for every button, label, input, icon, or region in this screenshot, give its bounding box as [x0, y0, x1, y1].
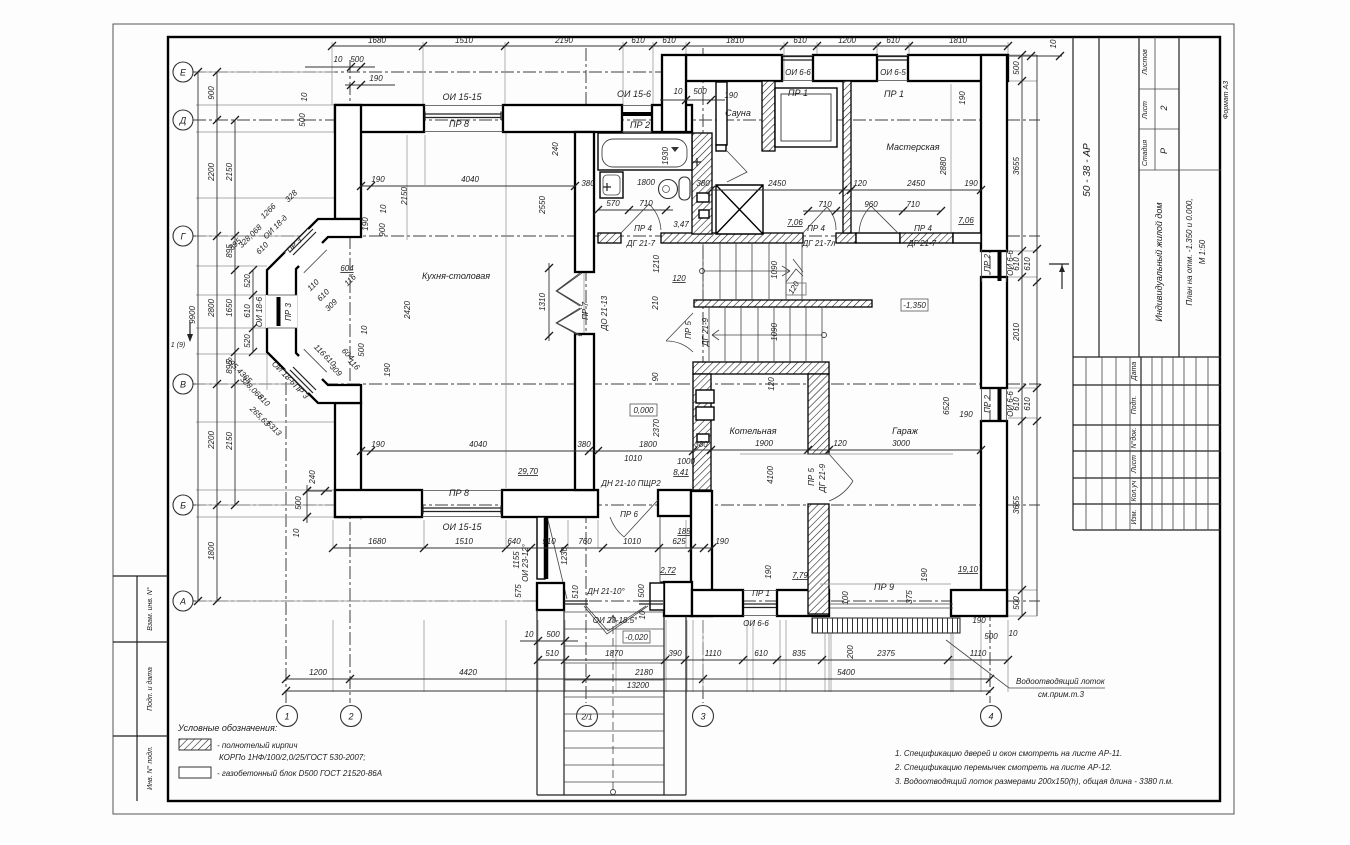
svg-text:50 - 38 - АР: 50 - 38 - АР [1082, 143, 1093, 197]
svg-text:7,79: 7,79 [792, 571, 808, 580]
svg-text:Дата: Дата [1131, 362, 1138, 382]
svg-text:Е: Е [180, 68, 187, 78]
svg-text:6520: 6520 [942, 397, 951, 415]
svg-text:ДГ 21-7: ДГ 21-7 [907, 239, 937, 248]
svg-text:2190: 2190 [554, 36, 573, 45]
svg-text:ОИ 6-6: ОИ 6-6 [1006, 391, 1015, 417]
wall axis А south (east wing) [692, 590, 743, 616]
legend block [179, 767, 211, 778]
bay window wall [267, 219, 361, 403]
door ОИ 23-12 leaf [544, 518, 549, 579]
svg-text:10: 10 [300, 92, 309, 101]
svg-text:500: 500 [1012, 61, 1021, 75]
dim chain left axes [216, 72, 218, 601]
svg-text:ОИ 23-12°: ОИ 23-12° [521, 543, 530, 582]
kitchen dim bottom [361, 450, 693, 452]
svg-text:ОИ 6-6: ОИ 6-6 [785, 68, 811, 77]
svg-text:3. Водоотводящий лоток размера: 3. Водоотводящий лоток размерами 200х150… [895, 777, 1173, 786]
svg-text:ДГ 21-7л: ДГ 21-7л [802, 239, 836, 248]
svg-text:Подп.: Подп. [1130, 396, 1138, 415]
entry door sill ДН 21-10 [564, 601, 663, 604]
svg-text:190: 190 [959, 410, 973, 419]
svg-text:610: 610 [793, 36, 807, 45]
door ПР 4 / ДГ 21-7 right [859, 206, 900, 235]
svg-text:120: 120 [833, 439, 847, 448]
dim chain left rooms [234, 120, 236, 505]
svg-text:-1,350: -1,350 [903, 301, 926, 310]
svg-text:190: 190 [715, 537, 729, 546]
svg-text:1930: 1930 [661, 147, 670, 165]
svg-text:2800: 2800 [207, 299, 216, 318]
svg-text:ПР 2: ПР 2 [983, 395, 992, 413]
svg-text:ДН 21-10 ПЩР2: ДН 21-10 ПЩР2 [600, 479, 661, 488]
svg-text:1810: 1810 [726, 36, 744, 45]
svg-text:Изм.: Изм. [1131, 509, 1138, 524]
svg-text:1510: 1510 [455, 36, 473, 45]
svg-text:ОИ 6-5: ОИ 6-5 [880, 68, 906, 77]
svg-text:2150: 2150 [225, 432, 234, 451]
dim chain left bay [252, 270, 254, 352]
svg-text:0,000: 0,000 [633, 406, 654, 415]
svg-text:10: 10 [334, 55, 343, 64]
svg-text:190: 190 [371, 440, 385, 449]
svg-text:570: 570 [606, 199, 620, 208]
svg-text:1 (9): 1 (9) [171, 342, 185, 349]
kitchen dim top [361, 185, 575, 187]
svg-text:ДН 21-10°: ДН 21-10° [586, 587, 625, 596]
svg-text:4: 4 [988, 712, 993, 722]
svg-text:610: 610 [1023, 397, 1032, 411]
bay window gap upper diagonal [285, 229, 328, 272]
svg-text:4040: 4040 [461, 175, 479, 184]
title block small rows [1073, 357, 1221, 530]
svg-text:190: 190 [920, 568, 929, 582]
left wall upper [335, 105, 361, 219]
svg-text:500: 500 [1012, 596, 1021, 610]
svg-text:2200: 2200 [207, 163, 216, 182]
window ОИ 6-6 [782, 56, 813, 81]
svg-text:ПР 1: ПР 1 [752, 589, 770, 598]
svg-text:- газобетонный блок D500 ГОСТ: - газобетонный блок D500 ГОСТ 21520-86А [217, 769, 382, 778]
svg-text:Инв. N° подл.: Инв. N° подл. [146, 746, 154, 790]
svg-text:1680: 1680 [368, 537, 386, 546]
svg-text:640: 640 [507, 537, 521, 546]
toilet [659, 180, 678, 199]
svg-text:Листов: Листов [1142, 49, 1149, 76]
left wall lower [335, 403, 361, 517]
bay window gap middle [266, 295, 297, 328]
extension lines top [332, 42, 1008, 105]
svg-text:ДГ 21-9: ДГ 21-9 [818, 463, 827, 493]
svg-text:Индивидуальный жилой дом: Индивидуальный жилой дом [1154, 202, 1164, 321]
svg-text:9900: 9900 [188, 306, 197, 324]
svg-text:ПР 5: ПР 5 [684, 321, 693, 339]
svg-text:4100: 4100 [766, 466, 775, 484]
door ПР 5 / ДГ 21-9 garage [829, 454, 853, 501]
furnace box with cross [716, 185, 763, 234]
hatched boiler room east wall [808, 374, 829, 454]
svg-text:240: 240 [551, 142, 560, 157]
dim chain top [332, 45, 1008, 47]
svg-text:ПР 3: ПР 3 [284, 303, 293, 321]
svg-text:710: 710 [906, 200, 920, 209]
corner wall piece [664, 582, 692, 616]
svg-text:3000: 3000 [892, 439, 910, 448]
svg-text:190: 190 [964, 179, 978, 188]
door ПР 5 / ДГ 21-9 corridor [666, 313, 693, 352]
svg-text:510: 510 [542, 537, 556, 546]
svg-text:500: 500 [357, 343, 366, 357]
svg-text:1310: 1310 [538, 293, 547, 311]
svg-text:3655: 3655 [1012, 496, 1021, 514]
hatched wall sauna/masterskaya [843, 81, 851, 233]
svg-text:М 1:50: М 1:50 [1198, 239, 1207, 264]
svg-text:8,41: 8,41 [673, 468, 689, 477]
svg-text:Мастерская: Мастерская [886, 142, 939, 152]
svg-text:900: 900 [207, 86, 216, 100]
hatched sauna east wall [762, 81, 775, 151]
svg-text:ПР 5: ПР 5 [807, 468, 816, 486]
svg-text:10: 10 [379, 204, 388, 213]
bath fixtures small marks [693, 158, 701, 166]
svg-text:29,70: 29,70 [517, 467, 539, 476]
window ОИ 6-6 / ПР 1 south [743, 591, 777, 616]
svg-text:1: 1 [284, 712, 289, 722]
door ПР 6 [610, 500, 658, 537]
svg-text:390: 390 [668, 649, 682, 658]
door ДГ 21-7 bath [621, 204, 661, 233]
svg-text:1800: 1800 [207, 542, 216, 560]
outer sheet border [113, 24, 1234, 814]
svg-text:ПР 7: ПР 7 [581, 302, 590, 320]
svg-text:ПР 2: ПР 2 [983, 254, 992, 272]
svg-text:Сауна: Сауна [725, 108, 751, 118]
svg-text:10: 10 [525, 630, 534, 639]
bay glazing middle ПР 3 / ОИ 18-6 [277, 297, 281, 326]
extension lines right [1008, 55, 1037, 616]
hatched boiler room west wall [693, 374, 711, 490]
svg-text:10: 10 [1049, 39, 1058, 48]
svg-text:2010: 2010 [1012, 323, 1021, 342]
svg-text:1200: 1200 [309, 668, 327, 677]
svg-text:ОИ 6-6: ОИ 6-6 [1006, 250, 1015, 276]
svg-text:ДО 21-13: ДО 21-13 [600, 295, 609, 331]
svg-text:2370: 2370 [652, 419, 661, 438]
sauna west wall stub [716, 82, 727, 145]
svg-text:см.прим.т.3: см.прим.т.3 [1038, 690, 1085, 699]
svg-text:Котельная: Котельная [729, 426, 776, 436]
svg-text:ОИ 23-18.5°: ОИ 23-18.5° [593, 616, 638, 625]
hatched stair landing wall [694, 300, 872, 307]
svg-text:380: 380 [581, 179, 595, 188]
dim chain bottom А [538, 659, 1008, 661]
dim chain left 9900 [197, 72, 199, 601]
svg-text:1650: 1650 [225, 299, 234, 317]
svg-text:380: 380 [696, 179, 710, 188]
svg-text:Гараж: Гараж [892, 426, 919, 436]
porch steps [564, 612, 664, 782]
washer boxes bathroom [697, 193, 709, 202]
svg-text:510: 510 [571, 585, 580, 599]
svg-text:ПР 4: ПР 4 [914, 224, 932, 233]
window ПР 2 / ОИ 6-6 right upper [982, 249, 1007, 282]
legend brick hatch [179, 739, 211, 750]
axis circles bottom [277, 706, 298, 727]
wall axis Д top (west wing) [335, 105, 424, 132]
svg-text:210: 210 [651, 296, 660, 311]
svg-text:500: 500 [350, 55, 364, 64]
axis lines vertical [285, 360, 287, 703]
drainage grate [812, 618, 960, 633]
svg-text:ОИ 15-15: ОИ 15-15 [443, 92, 483, 102]
svg-text:710: 710 [818, 200, 832, 209]
axis circles left [173, 62, 193, 82]
svg-text:1110: 1110 [705, 649, 722, 658]
svg-text:10: 10 [360, 325, 369, 334]
svg-text:90: 90 [651, 372, 660, 381]
svg-text:1230: 1230 [560, 547, 569, 565]
porch block right [650, 583, 664, 610]
svg-text:1090: 1090 [770, 261, 779, 279]
inner drawing frame [168, 37, 1220, 801]
door ПР 4 / ДГ 21-7л [803, 207, 836, 233]
svg-text:960: 960 [864, 200, 878, 209]
svg-text:ДГ 21-7: ДГ 21-7 [626, 239, 656, 248]
svg-text:ОИ 6-6: ОИ 6-6 [743, 619, 769, 628]
svg-text:900: 900 [378, 223, 387, 237]
svg-text:N°док.: N°док. [1130, 428, 1138, 449]
svg-text:1010: 1010 [623, 537, 641, 546]
svg-text:1. Спецификацию дверей и окон: 1. Спецификацию дверей и окон смотреть н… [895, 749, 1122, 758]
svg-text:1800: 1800 [637, 178, 655, 187]
svg-text:Р: Р [1159, 148, 1169, 154]
svg-text:А: А [179, 597, 186, 607]
dim chain bottom total [286, 690, 990, 692]
svg-text:625: 625 [672, 537, 686, 546]
svg-text:185: 185 [677, 527, 691, 536]
wall right (east) [981, 55, 1007, 251]
window ПР 8 / ОИ 15-15 south [422, 491, 502, 517]
extension lines bottom [333, 520, 1008, 692]
svg-text:-0,020: -0,020 [625, 633, 648, 642]
svg-text:190: 190 [361, 217, 370, 231]
svg-text:ДГ 21-9: ДГ 21-9 [701, 317, 710, 347]
svg-text:ПР 6: ПР 6 [620, 510, 638, 519]
svg-text:4420: 4420 [459, 668, 477, 677]
svg-text:2: 2 [1159, 105, 1169, 111]
sauna cabin ПР 1 [775, 88, 837, 147]
svg-text:- полнотелый кирпич: - полнотелый кирпич [217, 741, 298, 750]
svg-text:10: 10 [292, 528, 301, 537]
svg-text:Условные обозначения:: Условные обозначения: [177, 723, 278, 733]
svg-text:Лист: Лист [1131, 455, 1138, 474]
svg-text:520: 520 [243, 334, 252, 348]
svg-text:610: 610 [1023, 257, 1032, 271]
porch centerline arrow [609, 615, 617, 790]
svg-text:План на отм. -1.350 и 0.000,: План на отм. -1.350 и 0.000, [1185, 198, 1194, 305]
svg-text:190: 190 [383, 363, 392, 377]
svg-text:В: В [180, 380, 186, 390]
window ОИ 6-5 [877, 56, 908, 81]
svg-text:190: 190 [371, 175, 385, 184]
svg-text:2450: 2450 [767, 179, 786, 188]
svg-text:120: 120 [853, 179, 867, 188]
window ОИ 15-15 / ПР 8 top [424, 106, 503, 132]
svg-text:2. Спецификацию перемычек смот: 2. Спецификацию перемычек смотреть на ли… [894, 763, 1112, 772]
svg-text:610: 610 [243, 304, 252, 318]
sink [600, 172, 623, 198]
svg-text:Формат А3: Формат А3 [1223, 81, 1230, 119]
svg-text:610: 610 [631, 36, 645, 45]
svg-text:510: 510 [545, 649, 559, 658]
svg-text:ПР 8: ПР 8 [449, 488, 469, 498]
svg-text:190: 190 [724, 91, 738, 100]
svg-text:ПР 2: ПР 2 [630, 120, 650, 130]
svg-text:ПР 4: ПР 4 [634, 224, 652, 233]
double door ПР 7 / ДО 21-13 [556, 273, 582, 336]
svg-text:Кол.уч: Кол.уч [1131, 480, 1138, 501]
svg-text:Подп. и дата: Подп. и дата [146, 667, 154, 711]
svg-text:КОРПо 1НФ/100/2,0/25/ГОСТ 530-: КОРПо 1НФ/100/2,0/25/ГОСТ 530-2007; [219, 753, 365, 762]
svg-text:2,72: 2,72 [659, 566, 676, 575]
svg-text:Кухня-столовая: Кухня-столовая [422, 271, 490, 281]
bay glazing upper ПР 3 / ОИ 18-6 [290, 229, 316, 255]
svg-text:1010: 1010 [624, 454, 642, 463]
svg-text:610: 610 [662, 36, 676, 45]
svg-text:2450: 2450 [906, 179, 925, 188]
svg-text:1110: 1110 [970, 649, 987, 658]
svg-text:610: 610 [754, 649, 768, 658]
svg-text:ПР 4: ПР 4 [807, 224, 825, 233]
svg-text:Взам. инв. N°: Взам. инв. N° [146, 587, 154, 631]
svg-text:3655: 3655 [1012, 157, 1021, 175]
hatched wall axis Г [598, 233, 621, 243]
window ПР 2 / ОИ 6-6 right lower [982, 388, 1007, 421]
svg-text:240: 240 [308, 470, 317, 485]
svg-text:500: 500 [546, 630, 560, 639]
svg-text:Лист: Лист [1142, 101, 1149, 120]
svg-text:520: 520 [243, 274, 252, 288]
svg-text:10: 10 [674, 87, 683, 96]
window ОИ 15-6 / ПР 2 top [622, 106, 652, 132]
svg-text:190: 190 [972, 616, 986, 625]
level marks [630, 404, 657, 416]
svg-text:1210: 1210 [652, 255, 661, 273]
tambour west wall [537, 517, 545, 579]
svg-text:7,06: 7,06 [958, 216, 974, 225]
svg-text:760: 760 [578, 537, 592, 546]
svg-text:500: 500 [637, 584, 646, 598]
svg-text:1800: 1800 [639, 440, 657, 449]
svg-text:375: 375 [905, 590, 914, 604]
svg-text:1200: 1200 [838, 36, 856, 45]
internal stair upper flight [703, 243, 802, 300]
dim small top left [305, 66, 375, 68]
svg-text:710: 710 [639, 199, 653, 208]
sauna dims [711, 189, 981, 191]
svg-text:200: 200 [846, 645, 855, 660]
internal stair lower flight [709, 307, 822, 362]
svg-text:100: 100 [841, 591, 850, 605]
svg-text:7,06: 7,06 [787, 218, 803, 227]
svg-text:ОИ 15-15: ОИ 15-15 [443, 522, 483, 532]
dim chain bottom Б [333, 547, 712, 549]
entry door swing ОИ 23-18.5 [584, 606, 648, 634]
svg-text:1870: 1870 [605, 649, 623, 658]
kitchen east wall [575, 132, 594, 272]
section mark right [1049, 264, 1069, 289]
left margin strip cells [113, 576, 168, 801]
svg-text:2200: 2200 [207, 431, 216, 450]
wall column corridor/boiler [691, 491, 712, 616]
svg-text:500: 500 [693, 87, 707, 96]
hatched bathroom east wall [692, 133, 712, 234]
svg-text:1510: 1510 [455, 537, 473, 546]
svg-text:120: 120 [672, 274, 686, 283]
svg-text:190: 190 [958, 91, 967, 105]
svg-text:575: 575 [514, 584, 523, 598]
svg-text:ОИ 18-6: ОИ 18-6 [255, 296, 264, 327]
svg-text:2150: 2150 [400, 187, 409, 206]
svg-text:2550: 2550 [538, 196, 547, 215]
svg-text:2150: 2150 [225, 163, 234, 182]
wall top band east wing (axis Е) [686, 55, 782, 81]
closet east of tambour [659, 517, 661, 582]
svg-text:610: 610 [886, 36, 900, 45]
leader водоотводящий лоток [946, 640, 1105, 688]
svg-text:835: 835 [792, 649, 806, 658]
door sauna [727, 151, 747, 182]
svg-text:Водоотводящий лоток: Водоотводящий лоток [1016, 677, 1106, 686]
svg-text:190: 190 [764, 565, 773, 579]
section mark 1(9) left [189, 322, 191, 340]
title block grid [1073, 37, 1221, 530]
boiler equipment [696, 390, 714, 403]
svg-text:ПР 9: ПР 9 [874, 582, 894, 592]
svg-text:1155: 1155 [512, 551, 521, 569]
axis lines horizontal [193, 71, 688, 73]
svg-text:120: 120 [767, 377, 776, 391]
bath tub [598, 133, 692, 170]
porch block left [537, 583, 564, 610]
svg-text:500: 500 [294, 496, 303, 510]
bath dims [598, 209, 673, 211]
svg-text:5400: 5400 [837, 668, 855, 677]
hatched boiler room top wall [693, 362, 829, 374]
svg-text:Стадия: Стадия [1141, 140, 1149, 166]
porch stair rails [537, 610, 686, 795]
bay window gap lower diagonal [285, 350, 328, 393]
extension lines interior vertical [267, 84, 951, 520]
svg-text:ПР 8: ПР 8 [449, 119, 469, 129]
svg-text:3,47: 3,47 [673, 220, 689, 229]
svg-text:380: 380 [577, 440, 591, 449]
dim small top sauna [660, 99, 725, 101]
svg-text:2880: 2880 [939, 157, 948, 176]
wall axis Б south of kitchen [335, 490, 422, 517]
svg-text:3: 3 [700, 712, 705, 722]
svg-text:ПР 1: ПР 1 [788, 88, 808, 98]
svg-text:1810: 1810 [949, 36, 967, 45]
svg-text:380: 380 [694, 440, 708, 449]
dim chain bottom axes [286, 678, 990, 680]
svg-text:2375: 2375 [876, 649, 895, 658]
svg-text:10: 10 [638, 610, 647, 619]
svg-text:2420: 2420 [403, 301, 412, 320]
bay glazing lower ПР 3 / ОИ 18-6 [290, 367, 316, 393]
svg-text:ПР 1: ПР 1 [884, 89, 904, 99]
svg-text:190: 190 [369, 74, 383, 83]
